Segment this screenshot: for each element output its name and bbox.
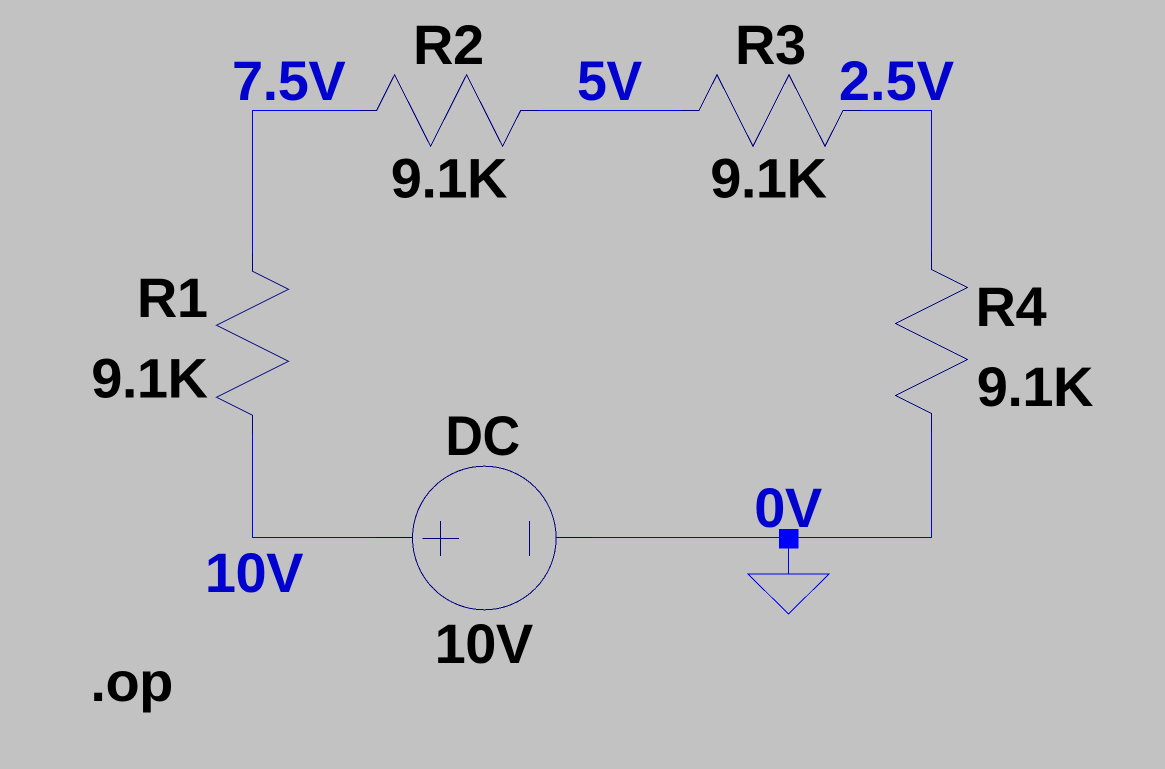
plus sign of V1 <box>423 521 460 556</box>
wire left vertical lower <box>252 433 254 538</box>
svg-text:2.5V: 2.5V <box>839 49 954 112</box>
svg-text:R2: R2 <box>413 13 484 76</box>
svg-text:10V: 10V <box>435 612 533 675</box>
junction node square <box>779 529 799 548</box>
svg-text:0V: 0V <box>754 476 822 539</box>
resistor R4 <box>896 252 968 432</box>
wire V1 to bottom-right corner <box>592 537 932 539</box>
wire R2 to R3 <box>538 110 681 112</box>
svg-text:R4: R4 <box>976 275 1047 338</box>
voltage source V1 lead left <box>376 537 412 539</box>
svg-text:10V: 10V <box>205 541 303 604</box>
svg-text:R1: R1 <box>137 266 208 329</box>
svg-text:9.1K: 9.1K <box>91 347 207 410</box>
minus sign of V1 (rotated bar) <box>529 521 531 556</box>
ground symbol triangle <box>748 574 829 614</box>
wire R3 to top-right corner <box>861 110 932 112</box>
svg-text:DC: DC <box>445 405 519 467</box>
wire right vertical lower <box>931 432 933 539</box>
svg-text:9.1K: 9.1K <box>391 147 507 210</box>
ground stem <box>788 538 790 575</box>
voltage source V1 circle <box>413 466 557 610</box>
resistor R1 <box>217 253 289 433</box>
resistor R3 <box>681 75 861 147</box>
svg-text:R3: R3 <box>735 13 806 76</box>
resistor R2 <box>360 75 538 147</box>
wire bottom-left to V1 <box>252 537 376 539</box>
wire top-left to R2 <box>252 110 360 112</box>
svg-text:9.1K: 9.1K <box>710 147 826 210</box>
voltage source V1 lead right <box>556 537 592 539</box>
svg-text:9.1K: 9.1K <box>977 355 1093 418</box>
svg-text:7.5V: 7.5V <box>232 49 345 112</box>
wire right vertical upper <box>931 110 933 252</box>
wire left vertical upper <box>252 110 254 253</box>
svg-text:.op: .op <box>90 650 172 713</box>
svg-text:5V: 5V <box>577 49 643 112</box>
